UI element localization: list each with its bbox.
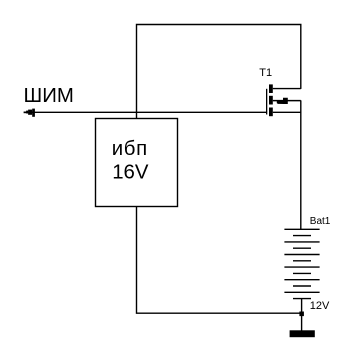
junction node 12V <box>299 312 304 317</box>
svg-text:12V: 12V <box>310 300 330 312</box>
node ШИМ arrow <box>24 109 35 117</box>
transistor T1 gate bar <box>266 89 267 115</box>
wire gate (ШИМ net) <box>24 111 267 113</box>
wire supply output to T1 drain (top loop) <box>137 25 301 119</box>
transistor T1 body bar <box>269 96 273 105</box>
wire body <box>273 100 301 102</box>
transistor T1 body arrow <box>277 98 288 104</box>
transistor T1 drain bar <box>269 84 273 93</box>
battery Bat1 plates <box>284 229 319 298</box>
svg-text:ШИМ: ШИМ <box>24 85 74 107</box>
wire drain <box>273 88 301 90</box>
wire supply bottom to ground rail <box>137 207 300 314</box>
svg-text:Bat1: Bat1 <box>310 216 331 227</box>
svg-text:T1: T1 <box>259 67 272 79</box>
power supply box ибп 16V <box>96 119 178 207</box>
wire source <box>273 111 301 113</box>
wire T1 to battery Bat1 positive <box>300 100 302 229</box>
wire battery negative to 12V node <box>301 299 303 331</box>
ground bar <box>290 330 315 337</box>
svg-text:16V: 16V <box>112 162 149 184</box>
svg-text:ибп: ибп <box>112 138 148 160</box>
transistor T1 source bar <box>269 108 273 117</box>
